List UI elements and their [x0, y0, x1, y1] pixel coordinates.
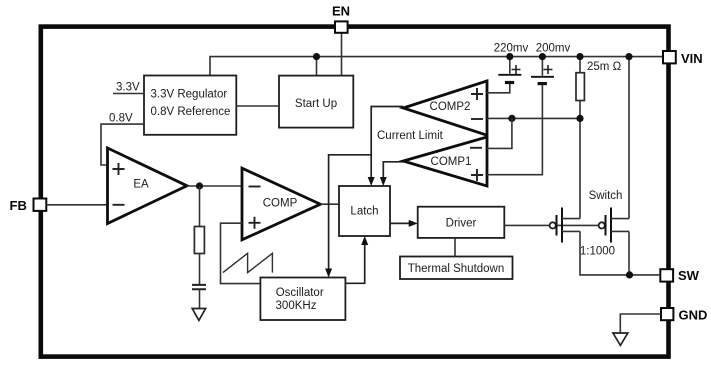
wire: node down to compensation resistor	[199, 186, 201, 227]
source 200mv: drop from rail	[541, 57, 543, 76]
wire: 220mv battery to COMP2 + input	[487, 84, 510, 93]
chip boundary frame	[41, 27, 669, 357]
node junction sense/COMP2 -	[576, 115, 583, 122]
pin EN pad	[335, 21, 348, 32]
node junction rail/200mv	[539, 53, 546, 60]
resistor: compensation R	[194, 227, 204, 254]
node junction on rail at Start Up	[313, 53, 320, 60]
wire: COMP1 output to Latch top (arrow)	[383, 162, 403, 178]
pin GND pad	[661, 308, 673, 320]
wire: Q2 source down to SW net	[628, 231, 630, 275]
transistor Q2 switch PMOS	[599, 222, 605, 228]
svg-text:FB: FB	[10, 198, 27, 213]
wire: resistor to capacitor	[199, 254, 201, 285]
wire: current-limit foldback to oscillator (arrow)	[329, 155, 372, 270]
svg-text:Oscillator: Oscillator	[276, 287, 324, 299]
sawtooth ramp symbol	[223, 253, 273, 272]
pin VIN pad	[663, 51, 676, 63]
wire: branch to COMP1 - input	[487, 118, 512, 148]
node junction on COMP2 - line	[508, 115, 515, 122]
wire: FB to EA inverting input	[46, 204, 107, 206]
op-amp EA (error amplifier)	[108, 148, 188, 224]
capacitor: compensation C	[192, 285, 206, 289]
svg-text:3.3V: 3.3V	[116, 82, 140, 94]
wire: Latch output to Driver (arrow)	[390, 222, 410, 224]
Driver block	[418, 207, 505, 238]
svg-text:0.8V Reference: 0.8V Reference	[151, 106, 231, 118]
wire: VIN top rail	[210, 57, 663, 76]
svg-text:Thermal Shutdown: Thermal Shutdown	[408, 263, 505, 275]
node junction rail/VIN drop	[625, 53, 632, 60]
svg-text:25m Ω: 25m Ω	[587, 61, 622, 73]
pin FB pad	[34, 199, 47, 211]
pin SW pad	[660, 269, 673, 281]
3.3V Regulator / 0.8V Reference block	[144, 76, 236, 135]
wire: EA output to COMP	[187, 185, 242, 187]
svg-text:220mv: 220mv	[494, 43, 529, 55]
3.3V output stub	[113, 93, 144, 95]
svg-text:SW: SW	[678, 268, 700, 283]
svg-text:Switch: Switch	[589, 190, 623, 202]
wire: COMP2 output to Latch top (arrow)	[371, 107, 403, 179]
resistor 25m ohm sense	[579, 57, 581, 73]
wire: Driver to Thermal Shutdown	[454, 238, 456, 257]
svg-text:0.8V: 0.8V	[109, 112, 133, 124]
comparator COMP1	[403, 137, 487, 186]
Start Up block	[279, 76, 353, 128]
svg-text:COMP: COMP	[263, 197, 298, 209]
wire: COMP non-inverting input from oscillator	[221, 223, 261, 283]
wire: oscillator output to Latch bottom (arrow)	[345, 244, 364, 283]
svg-text:Current Limit: Current Limit	[377, 130, 444, 142]
svg-text:GND: GND	[679, 307, 708, 322]
svg-text:COMP1: COMP1	[431, 156, 472, 168]
wire: regulator to Start Up	[236, 105, 279, 107]
wire: 200mv battery to COMP1 + input	[487, 85, 542, 175]
wire: Q1 source down to SW net	[580, 231, 660, 275]
wire: rail drop to Start Up	[316, 57, 318, 76]
svg-text:300KHz: 300KHz	[276, 300, 317, 312]
wire: rail to Q2 drain	[628, 57, 630, 219]
Oscillator block	[260, 278, 345, 321]
source 220mv: drop from rail	[509, 57, 511, 74]
node junction on SW net	[626, 271, 633, 278]
svg-text:EN: EN	[332, 4, 350, 19]
wire: EN pin to Start Up	[341, 33, 343, 76]
node junction rail/220mv	[506, 53, 513, 60]
Latch block	[339, 186, 390, 236]
wire: Driver output to gates	[504, 224, 598, 226]
op-amp COMP (PWM comparator)	[242, 168, 320, 240]
battery 220mv reference source	[498, 74, 521, 76]
svg-text:COMP2: COMP2	[430, 101, 471, 113]
node: EA output junction	[196, 182, 203, 189]
svg-text:200mv: 200mv	[536, 43, 571, 55]
Thermal Shutdown block	[400, 257, 513, 280]
svg-text:EA: EA	[133, 179, 149, 191]
wire: 25m ohm to Q1 drain	[579, 101, 581, 219]
ground symbol at GND	[613, 333, 628, 345]
svg-text:1:1000: 1:1000	[580, 246, 615, 258]
svg-text:Driver: Driver	[446, 217, 477, 229]
wire: COMP output to Latch	[320, 203, 339, 205]
battery 200mv reference source	[531, 76, 554, 78]
wire: 0.8V reference to EA + input	[101, 124, 144, 165]
comparator COMP2	[403, 81, 487, 135]
wire: GND pad to ground symbol	[620, 314, 661, 333]
svg-text:VIN: VIN	[681, 51, 703, 66]
wire: COMP2 - input to sense node	[487, 117, 580, 119]
wire: capacitor to ground	[199, 289, 201, 308]
svg-text:Latch: Latch	[350, 206, 378, 218]
transistor Q1 sense PMOS 1:1000	[550, 222, 556, 228]
ground symbol below capacitor	[192, 309, 205, 321]
svg-text:3.3V Regulator: 3.3V Regulator	[151, 89, 228, 101]
svg-text:Start Up: Start Up	[295, 98, 337, 110]
